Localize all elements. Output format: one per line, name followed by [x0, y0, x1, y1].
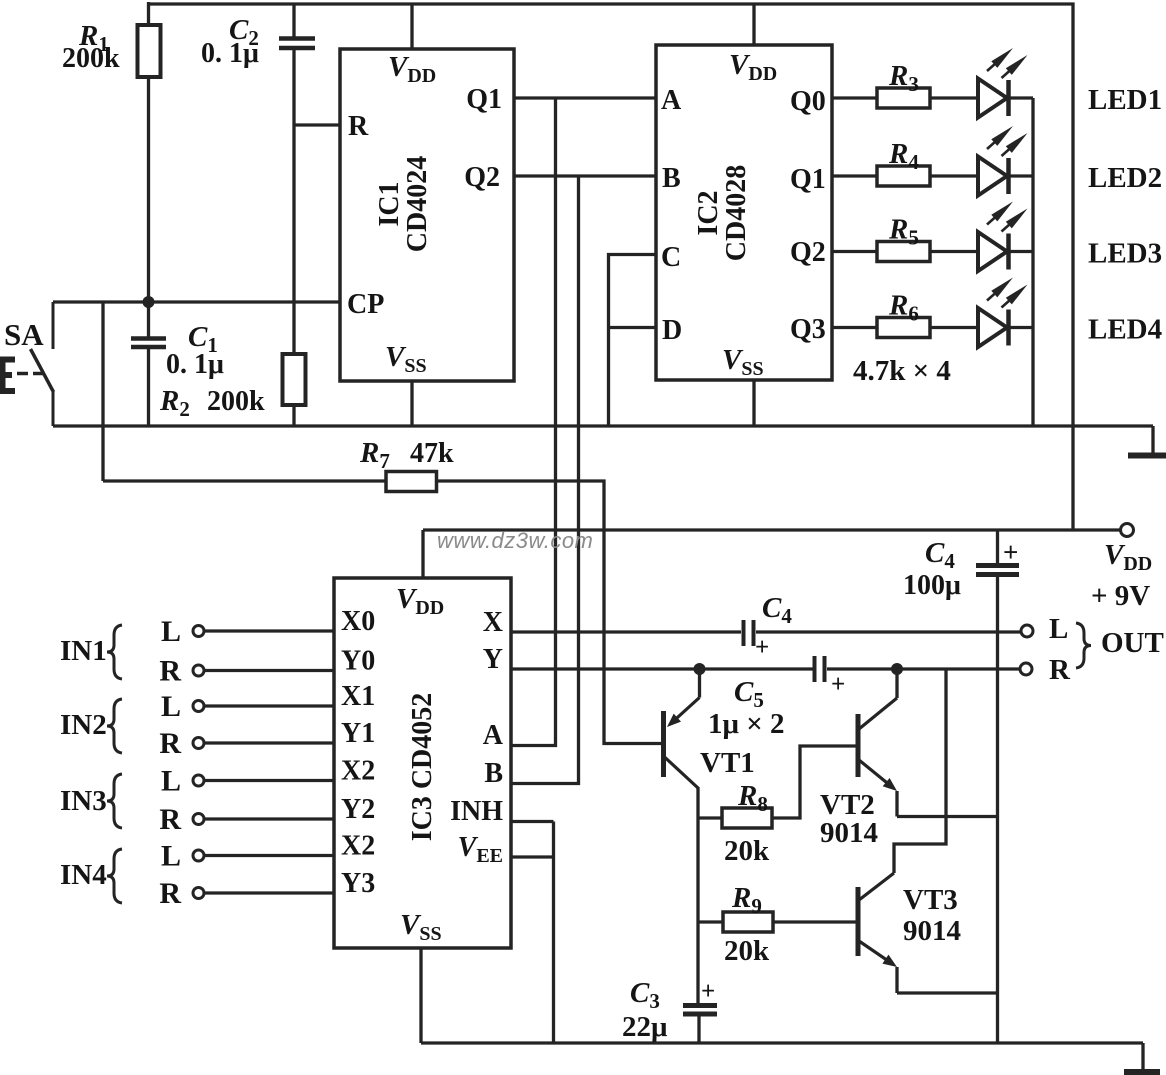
svg-text:9014: 9014 [820, 817, 878, 849]
svg-text:LED2: LED2 [1088, 162, 1162, 194]
svg-text:Y2: Y2 [341, 794, 375, 825]
svg-text:CD4024: CD4024 [402, 156, 433, 252]
wire Q out row LED2 [832, 174, 877, 177]
svg-text:IN1: IN1 [60, 635, 107, 667]
input terminal R Y0 [193, 665, 204, 676]
input terminal L X2 [193, 850, 204, 861]
svg-text:X2: X2 [341, 756, 375, 787]
svg-text:X2: X2 [341, 831, 375, 862]
svg-text:Q0: Q0 [790, 86, 826, 117]
svg-text:Q1: Q1 [790, 164, 826, 195]
svg-text:C: C [661, 242, 681, 273]
input terminal L X2 [193, 775, 204, 786]
wire resistor to LED3 [930, 250, 978, 253]
LED LED4 [978, 308, 1007, 347]
svg-text:47k: 47k [410, 438, 454, 469]
capacitor C2 [292, 4, 295, 38]
terminal L OUT [1021, 625, 1033, 637]
svg-text:+ 9V: + 9V [1091, 580, 1150, 612]
svg-text:www.dz3w.com: www.dz3w.com [437, 528, 593, 553]
svg-text:+: + [1003, 537, 1018, 567]
wire R7 to VT1 base [437, 481, 663, 744]
wire Q out row LED3 [832, 250, 877, 253]
svg-text:IN4: IN4 [60, 859, 107, 891]
svg-text:+: + [755, 634, 769, 661]
resistor R3 [877, 88, 930, 108]
svg-text:INH: INH [450, 796, 503, 827]
IC1 pin VDD [410, 4, 413, 49]
svg-text:100μ: 100μ [903, 570, 961, 601]
svg-text:IC1: IC1 [374, 181, 405, 226]
wire L line to terminal [756, 630, 1020, 633]
svg-text:SA: SA [4, 317, 44, 352]
wire Y out R line [511, 667, 813, 670]
svg-text:0. 1μ: 0. 1μ [166, 349, 224, 380]
svg-text:D: D [662, 315, 682, 346]
svg-text:CD4028: CD4028 [721, 165, 752, 261]
wire C D tie-down [609, 255, 657, 427]
wire resistor to LED1 [930, 96, 978, 99]
input terminal R Y1 [193, 738, 204, 749]
svg-text:IN2: IN2 [60, 709, 107, 741]
svg-text:R: R [1049, 654, 1071, 686]
svg-text:R: R [159, 655, 181, 688]
wire VDD supply line [423, 528, 1122, 531]
svg-text:A: A [483, 720, 504, 751]
LED LED2 [978, 157, 1007, 196]
LED LED1 [978, 79, 1007, 118]
wire bottom ground bus [421, 1041, 1143, 1044]
IC2 pin VDD [752, 4, 755, 45]
resistor R5 [877, 242, 930, 262]
wire Q1 to A [514, 96, 656, 99]
switch SA [52, 302, 55, 349]
op-amp IC1 box [340, 49, 514, 381]
node CP junction [143, 296, 155, 308]
svg-text:B: B [484, 758, 503, 789]
resistor R6 [877, 318, 930, 338]
svg-text:L: L [161, 690, 181, 723]
svg-text:200k: 200k [62, 43, 120, 74]
svg-text:B: B [662, 163, 681, 194]
svg-text:0. 1μ: 0. 1μ [201, 38, 259, 69]
node VT2 collector junction [891, 663, 903, 675]
svg-text:X: X [483, 607, 503, 638]
svg-text:4.7k × 4: 4.7k × 4 [853, 355, 951, 387]
wire Q2 to B [514, 174, 656, 177]
capacitor C4 coupling [742, 620, 746, 646]
op-amp IC3 box [334, 578, 511, 948]
svg-text:R: R [159, 877, 181, 910]
resistor R7 47k [386, 472, 437, 492]
wire R8 to VT2 base [772, 746, 856, 818]
svg-text:R: R [159, 803, 181, 836]
svg-text:R: R [159, 727, 181, 760]
svg-text:L: L [161, 765, 181, 798]
terminal VDD +9V [1121, 524, 1134, 537]
svg-text:22μ: 22μ [622, 1011, 668, 1043]
transistor VT3 [856, 887, 861, 956]
svg-text:LED1: LED1 [1088, 84, 1162, 116]
svg-text:R: R [348, 111, 369, 142]
svg-text:L: L [1049, 613, 1068, 645]
svg-text:VT1: VT1 [700, 747, 755, 779]
input terminal R Y3 [193, 888, 204, 899]
wire reset node C2/R pin/R2 [294, 123, 340, 126]
svg-text:Y0: Y0 [341, 646, 375, 677]
svg-text:LED4: LED4 [1088, 314, 1162, 346]
svg-text:+: + [831, 671, 845, 698]
IC2 name CD4028 [693, 165, 752, 261]
ground top right [1151, 426, 1154, 453]
input terminal L X1 [193, 701, 204, 712]
wire INH VEE ground [511, 820, 554, 823]
wire CP line [53, 300, 340, 303]
wire LED1 cathode [1009, 96, 1034, 99]
wire CP to R7 [101, 302, 104, 481]
resistor R9 20k [698, 920, 723, 923]
svg-text:L: L [161, 840, 181, 873]
wire Q out row LED1 [832, 96, 877, 99]
capacitor C3 22u [683, 1003, 717, 1008]
svg-text:LED3: LED3 [1088, 238, 1162, 270]
wire VT1 collector down [696, 787, 699, 1005]
svg-text:20k: 20k [724, 935, 770, 967]
wire Q1 to IC3 A [511, 98, 556, 746]
wire VDD top rail [149, 4, 1074, 530]
wire Q2 to IC3 B [511, 176, 579, 784]
svg-text:IC2: IC2 [693, 190, 724, 235]
wire IC3 VDD lead [421, 530, 424, 578]
transistor VT1 [661, 711, 666, 777]
svg-text:Q2: Q2 [464, 162, 500, 193]
svg-text:Y1: Y1 [341, 718, 375, 749]
svg-text:L: L [161, 615, 181, 648]
wire Q out row LED4 [832, 326, 877, 329]
resistor R4 [877, 166, 930, 186]
wire R line to terminal [827, 667, 1019, 670]
op-amp IC2 box [656, 45, 832, 380]
svg-text:X0: X0 [341, 606, 375, 637]
svg-text:Q3: Q3 [790, 314, 826, 345]
resistor R2 [283, 354, 306, 405]
input terminal L X0 [193, 626, 204, 637]
capacitor C5 coupling [813, 656, 817, 682]
wire LED cathode rail [1031, 98, 1034, 426]
label OUT brace [1076, 623, 1091, 668]
ground bottom right [1141, 1043, 1144, 1071]
LED LED3 [978, 232, 1007, 271]
transistor VT2 [856, 714, 861, 777]
IC1 name CD4024 [374, 156, 433, 252]
node VT1 emitter junction [694, 663, 706, 675]
svg-text:X1: X1 [341, 681, 375, 712]
wire X out L line [511, 630, 741, 633]
resistor R8 20k [698, 816, 722, 819]
svg-text:OUT: OUT [1101, 627, 1164, 659]
svg-text:VT3: VT3 [903, 884, 958, 916]
svg-text:IC3 CD4052: IC3 CD4052 [407, 693, 438, 842]
input terminal R Y2 [193, 814, 204, 825]
svg-text:Y: Y [483, 644, 503, 675]
wire R7 left lead [103, 479, 386, 482]
svg-text:9014: 9014 [903, 915, 961, 947]
svg-text:20k: 20k [724, 835, 770, 867]
svg-text:Y3: Y3 [341, 868, 375, 899]
svg-text:IN3: IN3 [60, 785, 107, 817]
svg-text:Q1: Q1 [466, 84, 502, 115]
wire ground bus [53, 424, 1153, 427]
wire LED3 cathode [1009, 250, 1034, 253]
wire LED4 cathode [1009, 326, 1034, 329]
svg-text:A: A [661, 85, 682, 116]
svg-text:200k: 200k [207, 386, 265, 417]
wire R9 to VT3 base [773, 920, 856, 923]
svg-text:Q2: Q2 [790, 237, 826, 268]
resistor R1 [147, 2, 150, 25]
wire resistor to LED2 [930, 174, 978, 177]
wire resistor to LED4 [930, 326, 978, 329]
svg-text:1μ × 2: 1μ × 2 [708, 708, 784, 740]
svg-text:CP: CP [347, 289, 384, 320]
capacitor C4 100u [996, 530, 999, 565]
capacitor C1 [147, 302, 150, 338]
wire LED2 cathode [1009, 174, 1034, 177]
terminal R OUT [1020, 663, 1032, 675]
svg-text:+: + [701, 978, 715, 1005]
IC3 name CD4052 [407, 693, 438, 842]
